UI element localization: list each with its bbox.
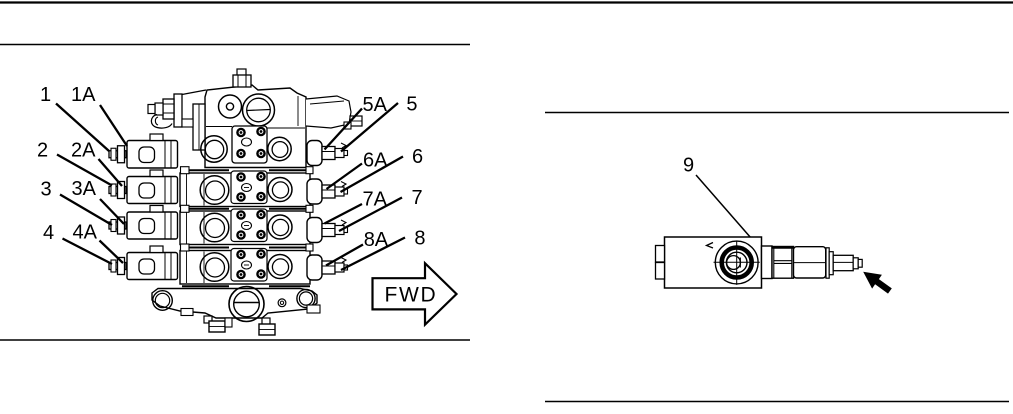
bottom foot bolt left [204, 316, 232, 332]
leader 3 [60, 195, 112, 226]
inlet right bracket [306, 96, 362, 129]
leader 3A [100, 199, 124, 224]
leader 6A [327, 164, 363, 190]
inlet relief valve [148, 94, 182, 128]
row 3 bolt plate [231, 209, 267, 242]
bottom right tab [307, 305, 320, 313]
leader 4 [63, 239, 113, 265]
callout 8 [414, 227, 425, 249]
bottom foot bolt right [259, 318, 275, 335]
bottom left ear [153, 291, 173, 311]
svg-text:4: 4 [43, 222, 54, 244]
svg-text:3: 3 [41, 178, 52, 200]
rule left figure bottom [0, 339, 470, 341]
leader 5A [325, 109, 363, 150]
leader 7 [339, 198, 402, 232]
row 2 left fitting [109, 182, 126, 199]
valve section row 4 body [180, 251, 310, 285]
inlet top cap [233, 69, 251, 87]
callout 1A [71, 84, 96, 106]
callout 6A [363, 149, 388, 171]
svg-text:4A: 4A [73, 222, 98, 244]
leader 4A [100, 241, 124, 264]
row 2 left port circle [200, 176, 229, 205]
svg-text:6: 6 [412, 146, 423, 168]
leader 2A [99, 159, 123, 186]
row 2 solenoid block [127, 170, 178, 204]
section joint line 2 [182, 208, 310, 210]
body mark [707, 243, 714, 249]
svg-text:9: 9 [683, 155, 694, 177]
body left port upper [656, 246, 665, 263]
valve section row 2 body [180, 173, 310, 207]
row1 left port circle [201, 136, 227, 162]
svg-text:8: 8 [414, 227, 425, 249]
bottom left tab [181, 309, 193, 316]
row 1 right cap fitting [307, 141, 348, 166]
inlet gauge port (small circle) [219, 95, 242, 118]
callout 2A [71, 139, 96, 161]
callout 7 [412, 187, 423, 209]
row 4 left port circle [200, 253, 229, 282]
svg-text:5: 5 [406, 93, 417, 115]
row 4 bolt plate [231, 249, 267, 282]
row 3 solenoid block [127, 206, 178, 240]
row 4 solenoid block [127, 246, 178, 280]
row 3 left fitting [109, 217, 126, 234]
callout 5 [406, 93, 417, 115]
row 4 right port circle [268, 255, 292, 279]
valve section row 3 body [180, 211, 310, 245]
svg-text:5A: 5A [363, 94, 388, 116]
leader 8 [341, 238, 405, 271]
leader 8A [326, 245, 363, 266]
bottom small port [278, 299, 286, 307]
leader 6 [341, 157, 404, 193]
tie rod bosses [181, 167, 314, 251]
rule right figure bottom [545, 401, 1009, 403]
relief mount step [182, 119, 193, 127]
cartridge stem sections [762, 246, 863, 279]
callout 6 [412, 146, 423, 168]
callout 1 [40, 84, 51, 106]
body left port lower [656, 263, 665, 280]
pointer arrow [863, 272, 892, 294]
bottom main plug [229, 287, 264, 322]
row 3 right cap fitting [307, 218, 348, 243]
row 2 bolt plate [231, 171, 267, 204]
row 4 left fitting [109, 258, 126, 275]
leader 7A [325, 204, 363, 224]
rule left header bottom [0, 44, 470, 46]
row 3 left port circle [200, 213, 229, 242]
callout 4A [73, 222, 98, 244]
section joint line 3 [182, 247, 310, 249]
FWD arrow [373, 263, 457, 325]
cartridge valve body [665, 237, 762, 288]
svg-text:3A: 3A [72, 178, 97, 200]
callout 3 [41, 178, 52, 200]
section joint line 1 [182, 169, 310, 171]
inlet section bolt plate [232, 126, 267, 163]
section joint line 4 [182, 285, 310, 287]
callout 2 [37, 139, 48, 161]
bottom end section body [152, 289, 317, 319]
row 1 solenoid block [127, 134, 178, 168]
cartridge nose concentric rings [714, 241, 760, 285]
bottom right ear [297, 289, 315, 307]
valve inlet section body [205, 85, 306, 168]
leader 2 [57, 155, 112, 186]
inlet left strip [193, 104, 205, 150]
row 4 right cap fitting [307, 255, 348, 280]
leader 5 [341, 103, 398, 152]
leader 1 [56, 104, 109, 152]
row 3 right port circle [268, 215, 292, 239]
callout 9 [683, 155, 694, 177]
row 1 left fitting [109, 146, 126, 163]
row 2 right port circle [268, 178, 292, 202]
callout 8A [364, 229, 389, 251]
svg-text:2A: 2A [71, 139, 96, 161]
rule page top [0, 1, 1013, 3]
svg-text:FWD: FWD [385, 284, 438, 307]
leader 1A [100, 105, 127, 146]
svg-text:1: 1 [40, 84, 51, 106]
row1 right port circle [268, 137, 291, 160]
leader 9 [696, 175, 751, 238]
callout 4 [43, 222, 54, 244]
inlet main port (large circle) [243, 94, 275, 126]
row 2 right cap fitting [307, 179, 348, 204]
svg-text:7: 7 [412, 187, 423, 209]
rule right figure top [545, 112, 1009, 114]
inlet contour lines [206, 96, 305, 128]
svg-text:1A: 1A [71, 84, 96, 106]
inlet top-left edge [182, 90, 206, 95]
svg-text:2: 2 [37, 139, 48, 161]
callout 7A [363, 189, 388, 211]
callout 5A [363, 94, 388, 116]
callout 3A [72, 178, 97, 200]
